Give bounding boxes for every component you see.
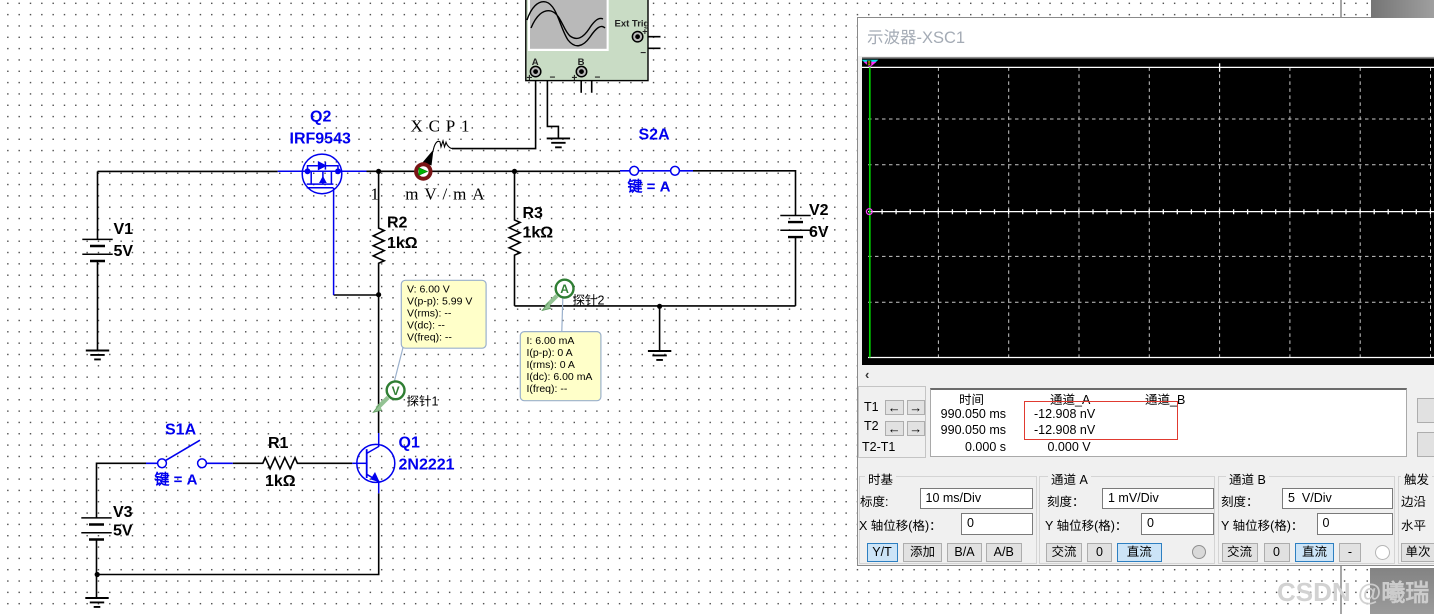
wire ext trig - stub (638, 42, 661, 48)
wire Q2 gate to R2 bottom (334, 294, 379, 296)
probe tooltip box 1 (voltage) (401, 280, 486, 348)
oscilloscope window XSC1 (857, 17, 1434, 566)
worksheet page border line (1340, 0, 1342, 614)
svg-text:XCP1: XCP1 (411, 117, 476, 136)
svg-text:A: A (532, 57, 539, 68)
svg-text:I: 6.00 mA: I: 6.00 mA (527, 335, 575, 347)
wire top rail V1 to Q2 (98, 170, 278, 172)
svg-text:1kΩ: 1kΩ (265, 473, 296, 490)
svg-text:V3: V3 (113, 504, 133, 521)
svg-text:Q2: Q2 (310, 108, 331, 125)
probe tooltip box 2 (current) (520, 332, 601, 401)
probe tooltip callout line 2 (562, 299, 563, 332)
ground GND2 below rail (648, 351, 671, 360)
wire scope B+ stub (580, 77, 582, 93)
svg-text:+: + (572, 73, 578, 84)
svg-text:I(rms): 0 A: I(rms): 0 A (527, 359, 575, 371)
svg-text:V1: V1 (114, 221, 134, 238)
svg-text:R2: R2 (387, 215, 408, 232)
node junction R2 top (376, 169, 381, 174)
ground GND4 scope A- (547, 138, 570, 147)
wire R3 bottom rail to V2 (515, 305, 796, 307)
svg-text:5V: 5V (114, 243, 134, 260)
svg-text:−: − (595, 72, 601, 83)
svg-text:+: + (642, 27, 647, 37)
wire bottom rail Q1 emitter to V3 (97, 493, 379, 574)
oscilloscope instrument icon XSC1 (526, 0, 650, 84)
svg-text:I(freq): --: I(freq): -- (527, 383, 568, 395)
switch S1A (open) (146, 462, 233, 464)
svg-text:V: V (392, 384, 400, 398)
wire R2 bottom to Q1 collector (378, 295, 380, 433)
battery V2 (795, 237, 797, 306)
svg-text:I(dc): 6.00 mA: I(dc): 6.00 mA (527, 371, 593, 383)
probe tooltip callout line 1 (394, 348, 403, 383)
svg-text:IRF9543: IRF9543 (290, 130, 351, 147)
wire scope A+ to current probe output (452, 77, 536, 149)
svg-text:+: + (527, 73, 533, 84)
svg-text:5V: 5V (113, 523, 133, 540)
node junction R2 bottom (376, 292, 381, 297)
wire scope B- stub (587, 72, 592, 93)
svg-text:6V: 6V (809, 224, 829, 241)
svg-text:键 = A: 键 = A (627, 178, 671, 195)
wire ground stem mid rail (659, 306, 661, 351)
wire ext trig + stub (643, 36, 661, 38)
battery V3 (81, 518, 111, 533)
wire V1 bottom stem (97, 261, 99, 351)
svg-text:探针1: 探针1 (407, 395, 439, 409)
svg-text:S2A: S2A (639, 126, 671, 143)
transistor Q2 IRF9543 MOSFET (278, 154, 367, 295)
svg-text:探针2: 探针2 (573, 294, 605, 308)
wire S2A to V2 corner (693, 171, 796, 216)
svg-text:V(dc): --: V(dc): -- (407, 319, 445, 331)
transistor Q1 2N2221 BJT (352, 433, 395, 493)
svg-text:B: B (578, 57, 585, 68)
wire V1 top stem (97, 171, 99, 239)
node junction ground tap (657, 304, 662, 309)
resistor R2 (373, 171, 384, 294)
ground GND3 below V3 (85, 598, 108, 607)
svg-text:V(p-p): 5.99 V: V(p-p): 5.99 V (407, 295, 472, 307)
current probe XCP1 (414, 141, 453, 181)
ground GND1 below V1 (86, 351, 109, 360)
switch S2A (closed) (620, 170, 693, 172)
wire V3 rail to S1A (97, 463, 147, 518)
svg-text:R3: R3 (523, 205, 544, 222)
wire Q2 to S2A with R2/R3 taps (367, 170, 621, 172)
svg-text:−: − (640, 48, 646, 59)
svg-text:R1: R1 (268, 435, 289, 452)
svg-text:V(rms): --: V(rms): -- (407, 307, 452, 319)
svg-text:1kΩ: 1kΩ (523, 224, 554, 241)
battery V1 (82, 239, 112, 254)
resistor R1 (233, 458, 352, 469)
svg-text:1kΩ: 1kΩ (387, 235, 418, 252)
svg-text:V(freq): --: V(freq): -- (407, 331, 452, 343)
node junction R3 top (512, 169, 517, 174)
svg-text:I(p-p): 0 A: I(p-p): 0 A (527, 347, 573, 359)
svg-text:−: − (550, 72, 556, 83)
svg-text:Q1: Q1 (399, 435, 420, 452)
resistor R3 (509, 171, 520, 306)
node junction bottom rail (95, 572, 100, 577)
svg-text:V2: V2 (809, 202, 829, 219)
svg-text:键 = A: 键 = A (154, 471, 198, 488)
probe A (current probe 2) (542, 280, 573, 311)
svg-text:S1A: S1A (165, 421, 197, 438)
svg-text:1 mV/mA: 1 mV/mA (371, 185, 491, 204)
svg-text:2N2221: 2N2221 (399, 456, 455, 473)
svg-text:A: A (560, 282, 569, 296)
svg-text:V: 6.00 V: V: 6.00 V (407, 283, 450, 295)
probe V (voltage probe 1) (373, 381, 404, 412)
wire scope A- to ground (541, 72, 558, 139)
